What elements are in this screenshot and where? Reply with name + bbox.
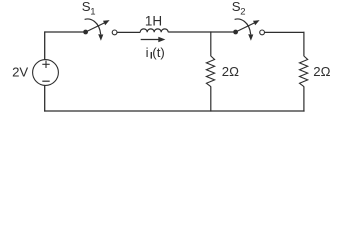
svg-text:1H: 1H: [145, 13, 162, 28]
svg-text:2Ω: 2Ω: [313, 64, 330, 79]
resistor R1 2ohm: [206, 56, 214, 87]
resistor R2 2ohm: [300, 56, 308, 87]
voltage source V1 2V: [33, 60, 59, 86]
svg-text:2: 2: [240, 7, 245, 18]
wire R1 bottom lead: [210, 86, 212, 111]
switch S2: [233, 19, 264, 41]
wire S2 to right corner: [265, 31, 305, 33]
inductor L1 1H: [140, 29, 168, 32]
wire top-left horizontal: [45, 31, 86, 33]
node junction middle: [210, 31, 212, 56]
wire S1 to inductor: [117, 31, 140, 33]
switch S1: [83, 19, 117, 41]
wire source bottom lead: [44, 85, 46, 111]
svg-text:i: i: [146, 45, 149, 60]
wire left vertical (source top lead): [44, 31, 46, 59]
wire bottom horizontal: [44, 110, 305, 112]
svg-text:2Ω: 2Ω: [222, 64, 239, 79]
wire inductor to S2 (through node): [168, 31, 235, 33]
svg-text:(t): (t): [152, 45, 164, 60]
svg-text:2V: 2V: [12, 65, 28, 80]
wire R2 bottom lead: [303, 86, 305, 111]
current arrow iL(t): [141, 37, 166, 42]
wire right vertical top lead: [303, 32, 305, 56]
svg-text:1: 1: [90, 7, 95, 18]
